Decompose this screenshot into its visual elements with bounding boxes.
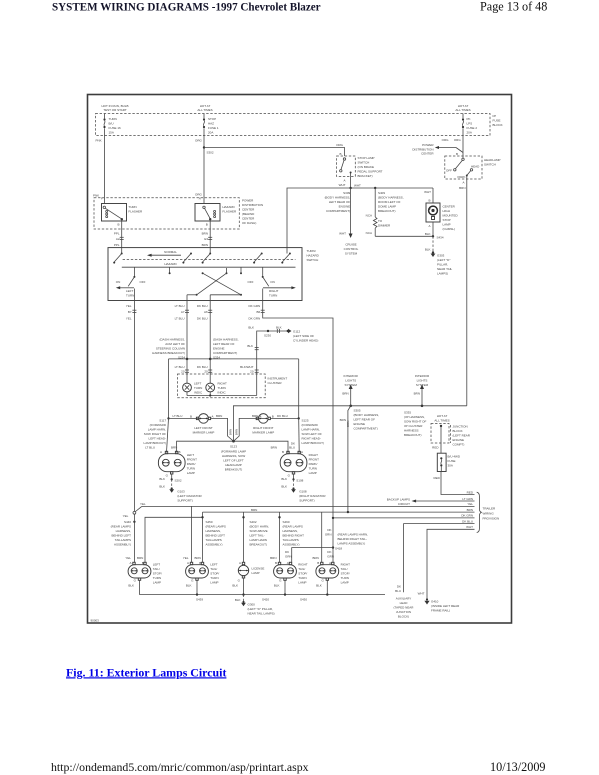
wire ORG branch to stop lamp switch [204,143,345,156]
switch right turn contact [248,276,296,301]
svg-text:LT BLU: LT BLU [175,304,185,308]
svg-text:30A: 30A [448,464,453,468]
svg-text:B: B [275,561,277,565]
wire LT BLU switch output [175,301,189,359]
svg-text:LAMP: LAMP [210,581,218,585]
switch left turn contact [116,276,146,301]
fuse STOP HAZ FUSE 1 20A [203,114,219,136]
svg-text:BLK: BLK [235,598,241,602]
svg-text:A: A [462,181,464,185]
switch HAZARD dashed arrow [123,260,296,266]
svg-text:A6: A6 [204,310,208,314]
svg-text:(LEFT RADIATOR: (LEFT RADIATOR [177,494,202,498]
svg-text:(TAPED NEAR: (TAPED NEAR [394,606,415,610]
svg-text:SOW ABOVE: SOW ABOVE [250,529,268,533]
svg-text:RED: RED [433,476,440,480]
svg-text:BRN: BRN [271,446,277,450]
svg-text:20A: 20A [208,131,213,135]
svg-text:LT BLU: LT BLU [175,365,185,369]
lamp left turn indicator [183,382,203,395]
resistor NCA dimmer stub [366,188,391,236]
svg-text:B: B [272,415,274,419]
svg-text:STOP LAMP: STOP LAMP [358,156,375,160]
wire BLK lamp1 ground [128,578,140,595]
power distribution center label [242,199,263,226]
svg-text:S402: S402 [250,520,257,524]
svg-text:WHT: WHT [424,190,431,194]
svg-text:BREAKOUT): BREAKOUT) [225,468,243,472]
svg-text:DK BLU: DK BLU [462,519,473,523]
harness label right rear [338,533,369,546]
svg-text:(BODY HARNESS,: (BODY HARNESS, [325,196,351,200]
svg-text:LEFT REAR OF: LEFT REAR OF [329,200,351,204]
svg-text:BLK: BLK [425,232,431,236]
svg-text:S302: S302 [207,151,214,155]
svg-text:FRAME RAIL): FRAME RAIL) [431,609,450,613]
svg-text:(INSIDE LEFT REAR: (INSIDE LEFT REAR [431,604,460,608]
lamp license [238,561,264,576]
svg-text:S420: S420 [262,598,269,602]
svg-text:TAIL/: TAIL/ [341,567,348,571]
power distribution center dashed box (flashers) [94,198,239,229]
svg-text:B/U: B/U [109,122,114,126]
svg-text:FRONT: FRONT [309,458,319,462]
svg-text:DK: DK [327,528,331,532]
svg-text:LAMPS ASSEMBLY): LAMPS ASSEMBLY) [338,542,366,546]
splice S490 label [283,520,305,547]
svg-text:G112: G112 [293,330,300,334]
svg-text:A7: A7 [181,310,185,314]
svg-text:DK GRN: DK GRN [461,514,473,518]
svg-text:S117: S117 [159,419,166,423]
svg-text:20A: 20A [467,131,472,135]
svg-text:CENTER: CENTER [242,217,255,221]
svg-text:G108: G108 [299,490,307,494]
svg-text:TURN/: TURN/ [307,249,316,253]
svg-text:B: B [340,152,342,156]
svg-text:S334: S334 [213,356,220,360]
svg-text:(CHMSL): (CHMSL) [443,227,456,231]
svg-text:COMPARTMENT): COMPARTMENT) [326,209,350,213]
svg-text:ALL TIMES: ALL TIMES [434,419,449,423]
svg-text:BRN: BRN [467,508,473,512]
wire DK BLU to right front lamp [289,359,300,453]
wire cluster indicator returns [187,392,257,397]
headlamp switch [445,136,501,180]
svg-text:CONTROL: CONTROL [344,247,359,251]
svg-text:LAMP: LAMP [187,471,195,475]
svg-text:BEHIND RIGHT TAIL-: BEHIND RIGHT TAIL- [338,537,367,541]
svg-text:LICENSE: LICENSE [252,567,265,571]
svg-text:STOP: STOP [208,117,216,121]
svg-text:TAILLAMPS: TAILLAMPS [283,538,299,542]
svg-text:HAZARD: HAZARD [222,205,235,209]
svg-text:B: B [282,450,284,454]
arrow interior lights system (left) [342,374,358,406]
svg-text:WHT: WHT [339,183,346,187]
svg-text:LAMPS): LAMPS) [437,272,448,276]
svg-text:COMPARTMENT): COMPARTMENT) [213,351,237,355]
svg-text:LIGHTS: LIGHTS [417,379,428,383]
wire WHT stop switch output [339,176,361,188]
svg-text:DK BLU: DK BLU [197,304,208,308]
I/P fuse block label [493,114,503,127]
svg-text:BRN: BRN [270,556,276,560]
svg-text:LEFT HEAD-: LEFT HEAD- [149,437,166,441]
svg-text:HAZ: HAZ [208,122,214,126]
svg-text:LEFT REAR OF: LEFT REAR OF [213,342,235,346]
svg-text:MOUNTED: MOUNTED [443,214,459,218]
lamp right tail/stop/turn 1 [270,550,308,585]
svg-text:SUPPORT): SUPPORT) [299,499,314,503]
svg-text:HARNESS,: HARNESS, [283,529,299,533]
svg-text:JUNCTION: JUNCTION [453,425,468,429]
svg-text:LAMP: LAMP [153,581,161,585]
svg-text:BRN: BRN [312,556,318,560]
svg-text:A: A [301,450,303,454]
svg-text:BLK: BLK [425,248,431,252]
diagram border frame [88,95,512,624]
svg-text:TURN: TURN [194,386,202,390]
svg-text:PARK: PARK [458,175,466,179]
svg-text:INTERIOR: INTERIOR [415,374,430,378]
svg-text:DK: DK [327,550,331,554]
svg-text:ACM LEFT OF: ACM LEFT OF [165,342,185,346]
svg-text:RIGHT: RIGHT [341,563,351,567]
auxiliary lead [394,585,415,619]
svg-text:LAMP HARN: LAMP HARN [250,538,267,542]
wire BLK lamp4 ground [274,578,286,595]
svg-text:YEL: YEL [183,556,189,560]
svg-text:I/P: I/P [493,114,497,118]
fuse TURN B/U FUSE 16 15A [103,114,121,136]
svg-text:ENGINE: ENGINE [213,347,225,351]
ground G108 [281,472,326,503]
svg-text:AUXILIARY: AUXILIARY [396,597,412,601]
svg-text:BEHIND LEFT: BEHIND LEFT [111,534,131,538]
svg-text:LAMP: LAMP [443,223,451,227]
lamp right turn indicator [206,382,227,395]
svg-text:G300: G300 [248,603,256,607]
svg-text:(REAR LAMPS: (REAR LAMPS [283,525,303,529]
svg-text:PPL: PPL [114,243,120,247]
svg-text:G: G [279,579,282,583]
svg-text:INTERIOR: INTERIOR [344,374,359,378]
svg-text:TURN: TURN [109,117,117,121]
svg-text:INDIC: INDIC [218,391,227,395]
wire BRN to right tail lamp 1 [278,512,280,562]
svg-text:S309: S309 [343,191,350,195]
svg-text:HARNESS BREAKOUT): HARNESS BREAKOUT) [152,351,185,355]
svg-text:BRN: BRN [235,429,239,435]
arrow interior lights system (right) [414,374,430,406]
svg-text:SYSTEM: SYSTEM [345,383,358,387]
svg-text:TAILLAMPS: TAILLAMPS [115,538,131,542]
svg-text:LEFT OF LEFT: LEFT OF LEFT [223,459,244,463]
fuse PK LPS FUSE 2 20A [462,114,477,136]
svg-text:DK BLU: DK BLU [277,414,288,418]
svg-text:BLK: BLK [276,326,282,330]
svg-text:FUSE: FUSE [448,459,456,463]
svg-text:MARKER LAMP: MARKER LAMP [193,430,215,434]
svg-text:TURN: TURN [128,205,136,209]
svg-text:BLU: BLU [289,446,295,450]
svg-text:WHT: WHT [354,184,361,188]
svg-text:ORG: ORG [336,143,344,147]
svg-text:B: B [456,152,458,156]
svg-text:(BEHIND: (BEHIND [242,212,255,216]
switch crossover contacts [187,268,242,301]
svg-text:S125: S125 [302,419,309,423]
svg-text:LEFT: LEFT [194,382,202,386]
svg-text:S305: S305 [354,409,361,413]
wire WHT trailer ground [427,525,475,598]
wire WHT to cruise control [339,188,359,256]
svg-text:(REAR LAMPS: (REAR LAMPS [206,525,226,529]
svg-text:LT GRN: LT GRN [462,497,473,501]
ground G103 [159,472,202,503]
svg-text:BREAKOUT): BREAKOUT) [378,209,396,213]
svg-text:(LEFT REAR: (LEFT REAR [453,434,471,438]
svg-text:TURN: TURN [218,386,226,390]
instrument cluster box [178,374,288,398]
svg-text:S409: S409 [378,191,385,195]
svg-text:FUSE 1: FUSE 1 [208,126,219,130]
svg-text:(BODY HARNESS,: (BODY HARNESS, [378,196,404,200]
svg-text:B7: B7 [128,310,132,314]
svg-text:BLK/WHT: BLK/WHT [240,365,254,369]
svg-text:LPS: LPS [467,122,473,126]
svg-text:B/U 4WD: B/U 4WD [448,455,461,459]
wire YEL switch output [126,301,137,512]
svg-text:SYSTEM: SYSTEM [416,383,429,387]
svg-text:ON: ON [270,280,275,284]
svg-text:BRN: BRN [195,556,201,560]
svg-text:TO: TO [378,219,383,223]
svg-text:YEL: YEL [123,514,129,518]
svg-text:RIGHT: RIGHT [298,563,308,567]
svg-text:15A: 15A [109,131,114,135]
wire DK GRN switch output [249,301,333,548]
svg-text:FUSE: FUSE [493,119,501,123]
splice S440 on YEL [111,514,136,563]
svg-text:BRN: BRN [346,421,350,427]
svg-text:BLK: BLK [232,584,238,588]
svg-text:ALL TIMES: ALL TIMES [455,108,470,112]
hazard flasher [195,204,237,222]
svg-text:G103: G103 [177,490,185,494]
svg-text:(FORWARD LAMP: (FORWARD LAMP [221,450,246,454]
svg-text:CLUSTER: CLUSTER [268,381,283,385]
svg-text:SWITCH: SWITCH [358,161,370,165]
svg-text:BRN: BRN [137,556,143,560]
svg-text:A: A [428,224,430,228]
svg-text:LEFT FRONT: LEFT FRONT [194,426,213,430]
svg-text:OFF: OFF [248,280,254,284]
wire DK BLU switch output [197,301,212,359]
svg-text:B6: B6 [257,310,261,314]
svg-text:Fig. 11: Exterior Lamps Circui: Fig. 11: Exterior Lamps Circuit [66,665,226,679]
trailer wiring provision brace [477,492,499,532]
svg-text:BLOCK: BLOCK [493,123,503,127]
svg-text:(REAR LAMPS: (REAR LAMPS [111,525,131,529]
svg-text:20: 20 [181,370,185,374]
svg-text:B: B [428,199,430,203]
svg-text:BRACKET): BRACKET) [358,174,373,178]
svg-text:FRONT: FRONT [187,458,197,462]
svg-text:TRAILER: TRAILER [483,507,497,511]
svg-text:S123: S123 [230,444,237,448]
svg-text:LEFT: LEFT [210,563,218,567]
wire PPL turn flasher to switch [114,221,124,248]
svg-text:LT BLU: LT BLU [145,446,155,450]
svg-text:HAZARD: HAZARD [307,254,320,258]
svg-text:GRN: GRN [285,555,292,559]
node HOT IN RUN label [102,104,129,112]
svg-text:DK: DK [285,550,289,554]
svg-text:SYSTEM WIRING DIAGRAMS -1997 C: SYSTEM WIRING DIAGRAMS -1997 Chevrolet B… [52,1,321,13]
svg-text:(I/P HARNESS,: (I/P HARNESS, [404,415,425,419]
svg-text:BREAKOUT): BREAKOUT) [404,433,422,437]
wire BRN hazard flasher to switch [202,221,213,248]
junction block [431,414,471,453]
svg-text:TURN: TURN [210,576,218,580]
fuse B/U 4WD 30A [432,446,461,472]
svg-text:20: 20 [250,370,254,374]
svg-text:HEADLAMP: HEADLAMP [225,463,242,467]
svg-text:LT BLU: LT BLU [175,316,185,320]
svg-text:A: A [212,415,214,419]
svg-text:A: A [199,197,201,201]
svg-text:YEL: YEL [467,502,473,506]
svg-text:STOP/: STOP/ [298,572,307,576]
wire BLK rear ground bus [140,593,386,601]
svg-text:BACKUP LAMPS: BACKUP LAMPS [387,497,410,501]
svg-text:S439: S439 [196,598,203,602]
splice S309 label [325,191,351,213]
svg-text:TEST OR START: TEST OR START [103,108,127,112]
svg-text:OFF: OFF [446,169,452,173]
svg-text:GRN: GRN [327,555,334,559]
svg-text:INSTRUMENT: INSTRUMENT [268,377,288,381]
svg-text:TAIL/: TAIL/ [153,567,160,571]
svg-text:BRN: BRN [251,508,257,512]
svg-text:G: G [166,473,169,477]
svg-text:S108: S108 [296,479,303,483]
svg-text:A: A [239,561,241,565]
svg-text:NEAR TAIL LAMPS): NEAR TAIL LAMPS) [248,612,275,616]
svg-text:LEFT: LEFT [153,563,161,567]
switch common bar [122,267,296,277]
svg-text:TURN: TURN [269,293,277,297]
svg-text:WHT: WHT [339,232,346,236]
svg-text:(FORWARD: (FORWARD [150,423,167,427]
ground G303 [425,236,453,275]
svg-text:B: B [190,415,192,419]
svg-text:MARKER LAMP: MARKER LAMP [252,430,274,434]
stop lamp switch [337,152,383,178]
svg-text:G: G [238,579,241,583]
svg-text:PNK: PNK [93,193,99,197]
svg-text:PK: PK [467,117,471,121]
wire BRN license lamp feed [242,512,244,562]
svg-text:YEL: YEL [140,502,146,506]
wire DK BLU 20 to indicator [197,359,259,383]
svg-text:BLK: BLK [186,584,192,588]
svg-text:LAMP: LAMP [252,571,260,575]
svg-text:SOW RIGHT OF: SOW RIGHT OF [144,432,166,436]
svg-text:HARNESS,: HARNESS, [206,529,222,533]
svg-text:LAMP: LAMP [298,581,306,585]
svg-text:SWITCH: SWITCH [307,258,319,262]
svg-text:BLK: BLK [274,584,280,588]
lamp CHMSL [424,188,458,231]
svg-text:GRN: GRN [325,533,332,537]
svg-text:HIGH: HIGH [443,209,451,213]
svg-text:(ON BRAKE: (ON BRAKE [358,165,375,169]
svg-text:S434: S434 [437,236,444,240]
svg-text:A: A [187,561,189,565]
svg-text:COMPT): COMPT) [453,443,465,447]
wire DK GRN trailer tap [332,514,475,519]
svg-text:HARNESS, SOW: HARNESS, SOW [222,454,246,458]
svg-text:YEL: YEL [126,316,132,320]
svg-text:(DASH HARNESS,: (DASH HARNESS, [213,338,239,342]
wire DK BLU auxiliary lead [404,519,475,592]
wire BRN interior feed bus [233,405,466,442]
svg-text:PARK/: PARK/ [309,462,318,466]
svg-text:SOW RIGHT OF: SOW RIGHT OF [404,420,426,424]
svg-text:E3: E3 [204,237,208,241]
svg-text:TAIL/: TAIL/ [210,567,217,571]
lamp left front marker [169,414,234,442]
svg-text:BLK: BLK [248,326,254,330]
svg-text:SOW LEFT OF: SOW LEFT OF [302,432,322,436]
svg-text:HOT AT: HOT AT [437,414,448,418]
svg-text:NCA: NCA [366,231,372,235]
wire PNK turn fuse to turn flasher [93,136,104,204]
svg-text:(LEFT SIDE OF: (LEFT SIDE OF [293,334,314,338]
svg-text:PEDAL SUPPORT: PEDAL SUPPORT [358,170,383,174]
svg-text:S440: S440 [124,520,131,524]
svg-text:LAMP: LAMP [309,471,317,475]
svg-text:BRN: BRN [342,392,348,396]
svg-text:G410: G410 [431,600,439,604]
svg-text:BRN: BRN [229,429,233,435]
svg-text:(BODY HARN,: (BODY HARN, [250,525,270,529]
wire BLK license ground [232,576,244,595]
svg-text:STOP/: STOP/ [153,572,162,576]
svg-text:FLASHER: FLASHER [222,210,237,214]
I/P fuse block dashed box [96,114,491,136]
svg-text:LEFT REAR OF: LEFT REAR OF [354,418,376,422]
splice S234 [152,338,299,361]
svg-text:(FORWARD: (FORWARD [302,423,319,427]
svg-text:(REAR LAMPS HARN,: (REAR LAMPS HARN, [338,533,369,537]
svg-text:PPL: PPL [114,232,120,236]
svg-text:STEERING COLUMN: STEERING COLUMN [156,347,185,351]
svg-text:BRN: BRN [202,243,208,247]
lamp left tail/stop/turn 1 [125,556,162,585]
svg-text:DOME LAMP: DOME LAMP [378,205,396,209]
wire BLK cluster ground [248,326,291,396]
svg-text:BLOCK): BLOCK) [398,615,409,619]
svg-text:G: G [134,579,137,583]
svg-text:S230: S230 [264,333,271,337]
svg-text:NCA: NCA [366,214,372,218]
svg-text:LAMP BRKOUT): LAMP BRKOUT) [302,441,324,445]
svg-text:RIGHT: RIGHT [269,289,279,293]
